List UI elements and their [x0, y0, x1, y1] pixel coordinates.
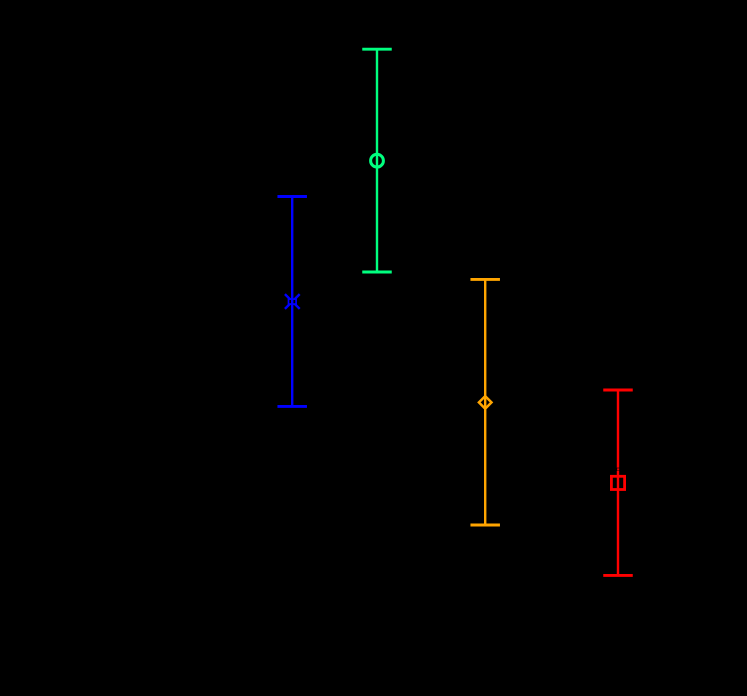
red square marker: [611, 476, 624, 489]
orange top cap: [470, 278, 500, 281]
error bar series 2 (blue, x marker): [277, 197, 307, 407]
green top cap: [362, 48, 392, 51]
blue top cap: [277, 195, 307, 198]
green circle marker: [371, 154, 384, 167]
red bottom cap: [603, 574, 633, 577]
blue x marker center rectangle: [289, 299, 297, 304]
wire: blue vertical error line: [291, 197, 293, 407]
node: small gap artifact in red line above square: [615, 468, 621, 471]
green bottom cap: [362, 271, 392, 274]
orange bottom cap: [470, 524, 500, 527]
orange diamond marker: [479, 396, 492, 409]
red top cap: [603, 389, 633, 392]
wire: red vertical error line: [617, 390, 619, 575]
blue x marker diagonal 2: [285, 294, 300, 309]
wire: orange vertical error line: [484, 279, 486, 525]
wire: green vertical error line: [376, 49, 378, 272]
error bar series 1 (green, circle marker): [362, 49, 392, 272]
blue x marker diagonal 1: [285, 294, 300, 309]
error bar series 3 (orange, diamond marker): [470, 279, 500, 525]
error bar series 4 (red, square marker): [603, 390, 633, 575]
blue bottom cap: [277, 405, 307, 408]
